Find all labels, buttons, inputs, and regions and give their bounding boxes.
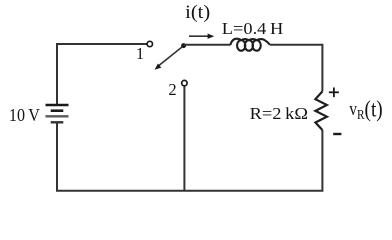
wire from pivot to inductor bbox=[184, 44, 231, 46]
battery V1 plate long top bbox=[46, 104, 69, 107]
wire top-left and left side down to battery top bbox=[57, 44, 147, 104]
wire from inductor to top-right corner down to resistor top bbox=[270, 45, 323, 92]
wire middle vertical from switch terminal 2 bbox=[183, 86, 185, 191]
minus sign of vR bbox=[333, 133, 341, 135]
svg-text:R=2 kΩ: R=2 kΩ bbox=[250, 104, 308, 123]
wire left side below battery, bottom wire, right side up to resistor bottom bbox=[57, 124, 322, 191]
svg-text:vR(t): vR(t) bbox=[349, 97, 382, 123]
current arrowhead bbox=[208, 34, 215, 39]
svg-text:1: 1 bbox=[136, 44, 144, 63]
plus sign of vR bbox=[329, 88, 339, 98]
switch terminal 1 bbox=[147, 41, 152, 46]
inductor L1 coil bbox=[230, 39, 270, 51]
svg-text:L=0.4 H: L=0.4 H bbox=[222, 19, 283, 38]
svg-text:10 V: 10 V bbox=[9, 105, 40, 125]
battery V1 plate long lower bbox=[46, 115, 69, 117]
battery V1 plate short bbox=[51, 109, 64, 112]
svg-text:2: 2 bbox=[168, 80, 176, 99]
switch terminal 2 bbox=[182, 80, 187, 85]
switch arm wire bbox=[159, 47, 182, 66]
switch arm arrowhead bbox=[155, 64, 162, 70]
resistor R1 zigzag bbox=[315, 91, 327, 130]
switch pivot dot bbox=[181, 43, 186, 48]
svg-text:i(t): i(t) bbox=[185, 2, 210, 23]
current arrow i(t) bbox=[189, 35, 208, 37]
battery V1 plate short bottom bbox=[51, 121, 64, 123]
